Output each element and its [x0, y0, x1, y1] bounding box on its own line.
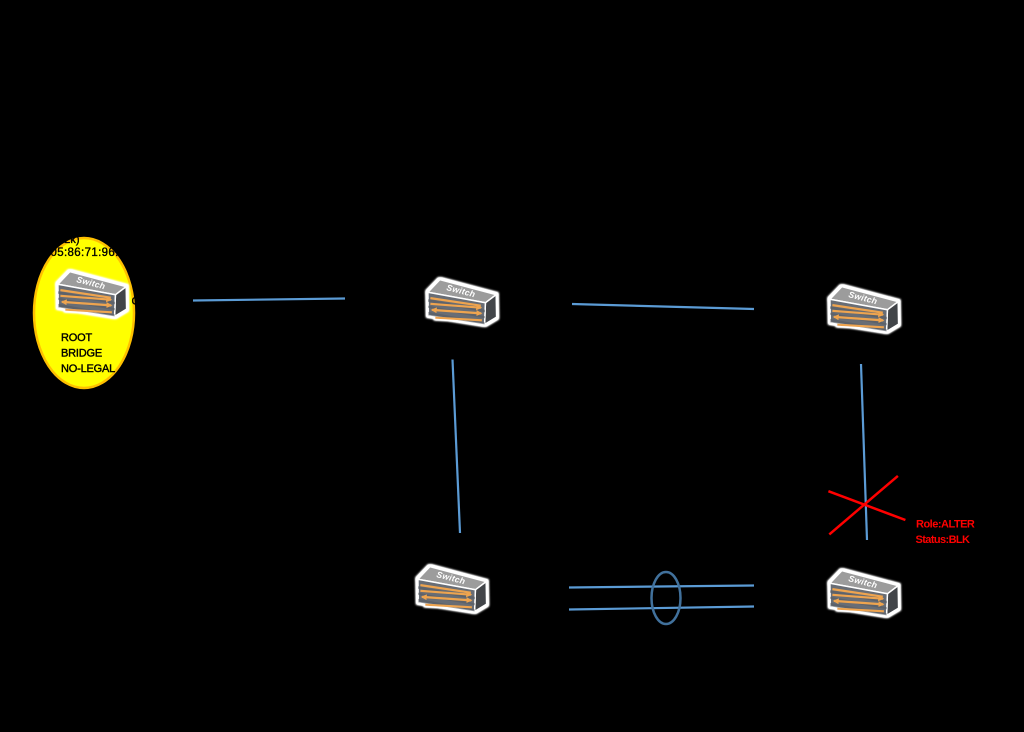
wire SW2-SW3 [572, 304, 754, 309]
red X line 1 [828, 491, 905, 520]
svg-text:Role:ALTER: Role:ALTER [916, 519, 975, 531]
switch SW1 (root bridge, in yellow ellipse) [58, 272, 127, 318]
blue ellipse marker on double wire [652, 572, 681, 624]
red X line 2 [829, 476, 898, 535]
switch SW5 (bottom right) [830, 571, 899, 617]
switch SW2 (top middle) [428, 280, 497, 326]
svg-text:(32k): (32k) [54, 234, 79, 246]
wire SW4-SW5 lower [569, 607, 754, 610]
svg-text:ROOT: ROOT [61, 332, 92, 344]
svg-text:NO-LEGAL: NO-LEGAL [61, 363, 115, 375]
switch SW3 (top right) [830, 287, 899, 333]
switch SW4 (bottom middle) [418, 567, 487, 613]
wire SW1-SW2 [193, 299, 345, 301]
svg-text:BRIDGE: BRIDGE [61, 347, 102, 359]
svg-text:05:86:71:96:: 05:86:71:96: [51, 247, 119, 259]
svg-text:Cost: Cost [132, 296, 155, 308]
wire SW2-SW4 vertical [453, 360, 461, 534]
yellow highlight ellipse [34, 238, 134, 388]
wire SW4-SW5 upper [569, 586, 754, 588]
svg-text:Status:BLK: Status:BLK [916, 534, 971, 546]
wire SW3-SW5 vertical [861, 364, 867, 540]
